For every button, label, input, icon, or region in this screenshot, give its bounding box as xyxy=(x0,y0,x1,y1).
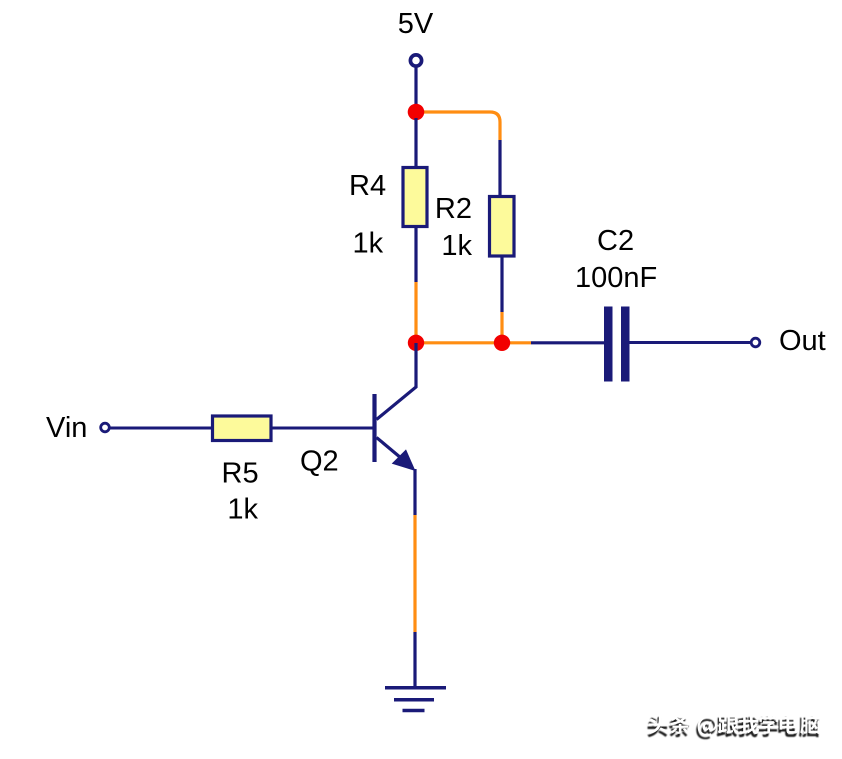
junction node at 5V rail xyxy=(408,104,425,121)
svg-text:Vin: Vin xyxy=(46,412,87,444)
wire: collector node to output node (orange) xyxy=(420,341,531,344)
wire: Vin to base (R5 in series) xyxy=(110,427,373,430)
terminal 5V xyxy=(410,55,421,66)
resistor R2 xyxy=(490,197,515,257)
svg-text:1k: 1k xyxy=(441,230,472,262)
wire: 5V terminal to junction xyxy=(414,68,417,107)
transistor Q2 xyxy=(375,343,417,471)
junction node: output xyxy=(494,335,510,351)
wire: emitter orange segment xyxy=(413,515,416,632)
capacitor C2 xyxy=(604,307,630,382)
wire: R2 bottom navy segment xyxy=(500,256,503,312)
svg-text:Q2: Q2 xyxy=(300,446,339,478)
wire: junction to R2 top (orange elbow) xyxy=(422,112,500,140)
svg-text:R4: R4 xyxy=(349,170,386,202)
svg-text:R2: R2 xyxy=(435,193,472,225)
svg-text:100nF: 100nF xyxy=(575,262,657,294)
wire: R4 bottom navy segment xyxy=(414,227,417,283)
wire: emitter navy segment xyxy=(413,469,416,515)
watermark 头条@跟我学电脑 shadow xyxy=(647,717,819,740)
svg-text:R5: R5 xyxy=(222,457,259,489)
svg-text:5V: 5V xyxy=(398,8,434,40)
resistor R4 xyxy=(403,168,427,227)
wire: elbow to R2 top xyxy=(498,140,501,197)
wire: junction to R4 top xyxy=(414,118,417,168)
svg-text:Out: Out xyxy=(779,325,826,357)
terminal Vin xyxy=(101,423,110,432)
watermark 头条@跟我学电脑 white text xyxy=(649,714,821,737)
svg-text:1k: 1k xyxy=(227,494,258,526)
wire: output node to capacitor xyxy=(531,341,604,344)
terminal Out xyxy=(751,338,760,347)
junction node: collector xyxy=(408,335,424,351)
wire: to ground xyxy=(413,632,416,687)
wire: R4 bottom orange segment xyxy=(414,282,417,336)
svg-text:1k: 1k xyxy=(353,227,384,259)
wire: R2 bottom orange segment xyxy=(500,312,503,337)
wire: capacitor to Out terminal xyxy=(630,341,751,344)
ground xyxy=(385,688,446,711)
resistor R5 xyxy=(213,416,272,441)
svg-text:C2: C2 xyxy=(597,225,634,257)
